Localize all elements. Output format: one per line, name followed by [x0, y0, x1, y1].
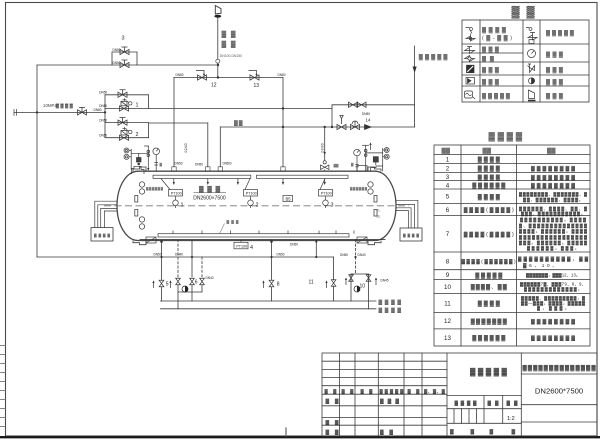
svg-text:▓▓: ▓▓ — [334, 164, 339, 168]
bypass group 3 loop — [112, 52, 137, 65]
svg-text:10: 10 — [360, 283, 366, 289]
legend col3 safety valve symbol — [528, 64, 535, 73]
legend table frame — [462, 20, 589, 102]
svg-text:5: 5 — [446, 194, 450, 201]
svg-text:▓▓▓▓(▓▓▓▓): ▓▓▓▓(▓▓▓▓) — [464, 207, 514, 214]
svg-text:1: 1 — [181, 203, 184, 209]
valve branch x333.6 — [333, 257, 335, 280]
svg-text:▓▓: ▓▓ — [547, 147, 556, 154]
group2 loop — [105, 123, 149, 138]
trap drain line 疏水管路 — [161, 300, 377, 302]
svg-text:▓▓▓▓▓▓▓▓: ▓▓▓▓▓▓▓▓ — [531, 183, 575, 189]
relief pilot — [340, 116, 343, 125]
svg-text:13: 13 — [444, 335, 451, 342]
svg-text:2: 2 — [256, 203, 259, 209]
valve 5 — [159, 280, 164, 286]
exhaust drain drop x283 — [282, 78, 284, 167]
nozzle flanges on tank top — [172, 167, 176, 171]
svg-text:▓▓▓▓▓▓▓▓: ▓▓▓▓▓▓▓▓ — [531, 319, 575, 325]
svg-text:2: 2 — [136, 132, 139, 138]
hydraulic door box left 液压开门 — [91, 228, 113, 241]
trap 10 — [354, 286, 360, 292]
svg-text:DN50: DN50 — [175, 161, 183, 165]
svg-text:1: 1 — [446, 156, 450, 163]
steam inlet line 10MPa — [14, 111, 105, 113]
left supply riser x37 — [36, 65, 38, 257]
exhaust valve 12 — [198, 75, 207, 80]
工序 column entries — [462, 156, 516, 342]
valve 8 — [269, 280, 274, 286]
svg-text:▓▓▓: ▓▓▓ — [546, 51, 564, 58]
svg-text:TL: TL — [377, 209, 381, 213]
control valve group 14 loop — [332, 105, 415, 127]
svg-text:3: 3 — [331, 203, 334, 209]
svg-text:▓▓▓: ▓▓▓ — [482, 79, 500, 86]
trap 6 — [182, 286, 188, 292]
svg-text:PT100: PT100 — [321, 192, 332, 196]
tank door flange bottom-left — [133, 241, 146, 245]
svg-text:▓▓: ▓▓ — [442, 147, 451, 154]
svg-text:▓▓▓▓▓▓: ▓▓▓▓▓▓ — [472, 182, 505, 189]
tank door flange bottom-right — [368, 241, 381, 245]
pressure gauge cluster right — [321, 142, 390, 171]
svg-text:▓: ▓ — [471, 428, 475, 435]
internal thermowell circles right — [368, 182, 377, 216]
svg-text:▓▓▓▓: ▓▓▓▓ — [94, 233, 110, 238]
svg-text:1: 1 — [136, 103, 139, 109]
valve 2a (group2 top) — [118, 118, 127, 126]
svg-text:DN50: DN50 — [113, 48, 121, 52]
svg-text:▓: ▓ — [450, 428, 454, 435]
tiny DN pipe labels — [94, 48, 389, 283]
svg-text:8: 8 — [277, 281, 280, 287]
legend row1: pneumatic ball valve symbol — [466, 28, 476, 42]
drop x316 — [315, 240, 317, 257]
svg-text:▓▓▓▓、▓▓: ▓▓▓▓、▓▓ — [471, 284, 507, 291]
svg-text:DN50: DN50 — [99, 91, 107, 95]
door linkage steps right — [396, 200, 418, 228]
legend row5 symbol filter — [466, 78, 475, 85]
svg-text:DN80: DN80 — [176, 73, 184, 77]
svg-text:▓▓▓: ▓▓▓ — [482, 67, 500, 74]
svg-text:DN50: DN50 — [99, 133, 107, 137]
group1 loop — [105, 95, 149, 109]
svg-text:3: 3 — [446, 174, 450, 181]
svg-text:DN80: DN80 — [278, 73, 286, 77]
svg-text:(▓-▓▓): (▓-▓▓) — [482, 35, 512, 42]
svg-text:▓▓▓: ▓▓▓ — [546, 79, 564, 86]
svg-text:13: 13 — [254, 83, 260, 89]
svg-text:▓▓▓▓▓▓▓: ▓▓▓▓▓▓▓ — [471, 318, 507, 325]
svg-text:10: 10 — [444, 284, 451, 291]
internal thermowell circles left — [135, 182, 145, 229]
svg-text:▓▓▓: ▓▓▓ — [482, 46, 500, 53]
group2 inter-branch pilot — [123, 127, 133, 134]
group 6 valves — [176, 278, 181, 284]
svg-text:DN50: DN50 — [184, 144, 188, 153]
svg-text:▓▓▓▓(▓▓▓▓): ▓▓▓▓(▓▓▓▓) — [464, 231, 514, 238]
svg-text:DN50: DN50 — [113, 61, 121, 65]
svg-text:DN50: DN50 — [362, 112, 370, 116]
PT100 #4 under tank — [234, 240, 248, 249]
svg-text:DN50: DN50 — [277, 252, 285, 256]
svg-text:▓▓▓▓▓▓: ▓▓▓▓▓▓ — [472, 335, 505, 342]
svg-text:▓▓▓: ▓▓▓ — [380, 398, 399, 405]
valve 1b actuated — [120, 101, 129, 111]
inlet gate valve — [78, 107, 87, 115]
svg-text:DN50: DN50 — [195, 163, 203, 167]
svg-text:DN40: DN40 — [206, 276, 214, 280]
door linkage steps left — [95, 201, 118, 227]
exhaust riser pipe — [217, 18, 219, 60]
rail inlet arrows — [173, 178, 326, 185]
bypass valve 3 main — [120, 60, 129, 68]
steam feed drop to tank x173.5 — [173, 78, 175, 167]
water drop x310 — [324, 127, 326, 161]
steam main to tank top manifold y108.5 — [149, 108, 332, 110]
group 10 valves — [349, 275, 354, 281]
svg-text:8: 8 — [446, 258, 450, 265]
legend col3 muffler symbol — [528, 90, 536, 101]
control valve with dome — [351, 124, 360, 129]
junction dots — [36, 64, 357, 258]
svg-text:DN2600*7500: DN2600*7500 — [535, 386, 583, 395]
title block frame — [322, 353, 597, 436]
legend row6 symbol pressure sensor — [465, 91, 476, 99]
drops group 6 — [177, 240, 179, 277]
legend row2 symbol stop valve — [465, 47, 475, 54]
svg-text:▓: ▓ — [512, 428, 516, 435]
svg-text:▓▓▓▓▓▓▓▓: ▓▓▓▓▓▓▓▓ — [531, 166, 575, 172]
svg-text:BL: BL — [377, 215, 381, 219]
thick bottom edge line — [0, 436, 600, 438]
svg-text:▓▓▓▓▓▓▓▓: ▓▓▓▓▓▓▓▓ — [531, 175, 575, 181]
svg-text:DN500: DN500 — [223, 161, 232, 165]
legend row3 symbol ball valve — [465, 56, 475, 62]
water line y127 — [220, 126, 414, 128]
svg-text:PT100: PT100 — [171, 192, 182, 196]
svg-text:▓▓▓▓▓▓: ▓▓▓▓▓▓ — [146, 187, 164, 191]
svg-text:DN50: DN50 — [154, 252, 162, 256]
valve 2b actuated — [120, 131, 129, 141]
svg-text:▓▓: ▓▓ — [234, 119, 244, 126]
temperature sensor PT100 #3 — [319, 179, 333, 208]
valve 1a (group1 top) — [118, 90, 127, 98]
svg-text:DN50: DN50 — [340, 253, 348, 257]
softened water inlet drop x414.6 — [414, 46, 416, 127]
svg-text:6: 6 — [195, 279, 198, 285]
svg-text:DN50: DN50 — [290, 243, 298, 247]
drain line 排水管路 — [161, 308, 377, 310]
valve x333.6 — [331, 280, 336, 286]
svg-text:▓▓: ▓▓ — [512, 5, 542, 19]
pressure gauge cluster left — [124, 146, 160, 174]
svg-text:9: 9 — [446, 272, 450, 279]
row numbers 1-13 — [444, 156, 451, 342]
safety valve tag box 5 — [283, 196, 293, 202]
group1 inter-branch pilot — [123, 98, 133, 105]
svg-text:4: 4 — [250, 245, 253, 251]
main steam top line y65 — [37, 64, 218, 66]
drops group 10 — [355, 240, 357, 274]
svg-text:▓▓▓▓▓▓: ▓▓▓▓▓▓ — [350, 187, 368, 191]
temperature sensor PT100 #1 — [161, 179, 183, 208]
branch riser x105 — [104, 95, 106, 138]
drop to valve 5 — [161, 240, 163, 280]
left margin fold tick marks — [0, 346, 286, 437]
svg-text:DN2600×7500: DN2600×7500 — [193, 195, 226, 201]
svg-text:PT100: PT100 — [236, 245, 247, 249]
check valve 14 — [365, 125, 372, 130]
svg-text:12: 12 — [211, 83, 217, 89]
tank centerline (dashed) — [104, 205, 409, 207]
svg-text:12: 12 — [444, 318, 451, 325]
svg-text:PT100: PT100 — [246, 192, 257, 196]
lower spray rail — [158, 231, 354, 238]
svg-text:▓▓▓: ▓▓▓ — [227, 219, 239, 224]
process steps table frame — [434, 145, 590, 346]
svg-text:3: 3 — [122, 36, 125, 42]
bottom steam header y257 — [37, 256, 334, 258]
svg-text:▓▓▓▓: ▓▓▓▓ — [403, 233, 419, 238]
svg-text:4: 4 — [446, 182, 450, 189]
svg-text:▓▓▓: ▓▓▓ — [546, 67, 564, 74]
title block: revision header row 标记 处数 分区 更改文件号 签名 年月日 — [325, 364, 597, 435]
svg-text:▓▓▓: ▓▓▓ — [546, 93, 564, 100]
svg-text:5: 5 — [166, 281, 169, 287]
svg-text:11: 11 — [309, 280, 314, 286]
legend col3 pressure gauge symbol — [528, 50, 536, 58]
hydraulic door box right 液压开门 — [400, 228, 422, 241]
svg-text:▓▓▓▓▓▓▓▓▓▓▓▓▓▓: ▓▓▓▓▓▓▓▓▓▓▓▓▓▓ — [523, 364, 597, 371]
bypass valve 3 top — [120, 47, 129, 55]
svg-text:1:2: 1:2 — [507, 416, 515, 422]
svg-text:▓: ▓ — [490, 428, 494, 435]
tank door flange top-right — [368, 167, 381, 171]
upper steam rail segment A — [153, 175, 251, 178]
svg-text:DN100-DN150: DN100-DN150 — [220, 54, 242, 58]
svg-text:▓▓▓: ▓▓▓ — [199, 186, 220, 193]
legend row4 symbol check valve — [467, 65, 475, 73]
control loop top valves — [349, 102, 358, 107]
svg-text:▓▓: ▓▓ — [483, 147, 492, 154]
drop to valve 8 — [271, 240, 273, 280]
svg-text:DN45: DN45 — [381, 279, 389, 283]
svg-text:DN50: DN50 — [320, 144, 324, 153]
svg-text:B5: B5 — [286, 197, 292, 202]
control valve assembly 14 — [337, 124, 346, 129]
exhaust muffler — [215, 6, 221, 15]
svg-text:7: 7 — [446, 231, 450, 238]
group2 outlet line y123 — [149, 122, 208, 124]
autoclave tank shell — [117, 171, 396, 240]
svg-text:DN40: DN40 — [175, 252, 183, 256]
tank door flange top-left — [133, 167, 146, 171]
temperature sensor PT100 #2 — [244, 179, 258, 208]
legend col3 row1: pneumatic control valve symbol — [526, 28, 537, 44]
upper steam rail segment B — [257, 175, 349, 178]
svg-text:▓▓▓▓: ▓▓▓▓ — [482, 27, 507, 34]
svg-text:DN40: DN40 — [358, 253, 366, 257]
exhaust header y77.5 — [174, 77, 283, 79]
exhaust valve 13 — [250, 75, 259, 80]
legend col3 trap symbol — [529, 78, 535, 84]
步骤 column entries — [531, 166, 575, 342]
svg-text:14: 14 — [366, 118, 371, 123]
svg-text:DN80: DN80 — [94, 108, 102, 112]
svg-text:11: 11 — [444, 300, 451, 307]
svg-text:DN50: DN50 — [99, 118, 107, 122]
svg-text:6: 6 — [446, 207, 450, 214]
bottom collection header — [140, 239, 385, 241]
svg-text:2: 2 — [446, 165, 450, 172]
svg-text:▓▓▓▓▓▓▓▓: ▓▓▓▓▓▓▓▓ — [531, 336, 575, 342]
